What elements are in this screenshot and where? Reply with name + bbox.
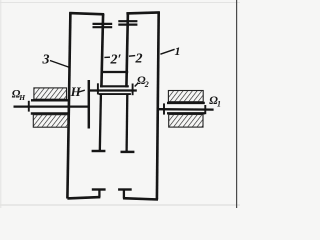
- label O2 leader: [135, 83, 138, 86]
- planet block bottom line L1: [100, 85, 129, 87]
- axle journal tick left: [97, 83, 99, 94]
- svg-text:H: H: [70, 84, 82, 99]
- carrier H arm: [88, 80, 90, 129]
- planet gear 2' body (lower): [100, 94, 101, 152]
- ring gear 3 rim (left drum wall): [67, 12, 70, 198]
- label 2 leader: [129, 55, 135, 58]
- bearing left lower: pad line: [31, 112, 68, 114]
- input shaft omega_H: [14, 105, 89, 107]
- ring gear 3 bottom rim cap: [92, 188, 106, 190]
- ring gear 1 bottom rim cap: [118, 188, 132, 190]
- svg-text:2′: 2′: [110, 53, 122, 68]
- ring gear 3 top web: [69, 13, 104, 14]
- label H leader: [79, 90, 85, 92]
- ring gear 1 bottom tooth stub: [123, 190, 125, 198]
- axle journal tick right: [132, 84, 134, 96]
- bearing right upper: hatch: [168, 91, 203, 102]
- ring gear 1 top web: [126, 12, 159, 13]
- scan border bottom: [0, 204, 240, 206]
- planet lower half top edge: [99, 93, 131, 95]
- scan border top: [0, 2, 240, 4]
- label 3 leader: [50, 61, 70, 68]
- svg-text:3: 3: [42, 53, 50, 68]
- bearing left lower: hatch: [33, 115, 68, 128]
- scan border left: [0, 0, 2, 208]
- bearing right upper: pad line: [167, 102, 205, 104]
- bearing right lower: pad line: [167, 112, 205, 114]
- bearing right lower: hatch: [169, 115, 203, 128]
- page background: [0, 0, 240, 208]
- planet 2 lower rim cap: [121, 151, 135, 153]
- planet axle O2 line: [89, 89, 137, 91]
- planet gear 2 body (upper): [126, 13, 128, 87]
- input shaft end tick: [28, 101, 30, 112]
- label 2' leader: [104, 56, 110, 58]
- planet gear 2 body (lower): [125, 94, 128, 152]
- svg-text:2: 2: [135, 52, 143, 67]
- bearing left upper: pad line: [31, 99, 68, 101]
- bearing left upper: hatch: [34, 88, 67, 99]
- ring gear 1 rim (right drum wall): [157, 12, 159, 200]
- ring gear 3 bottom tooth stub: [98, 190, 100, 197]
- label 1 leader: [160, 49, 174, 54]
- mesh 1/2 bar upper: [118, 20, 137, 22]
- output shaft tick left: [163, 103, 165, 114]
- planet 2' lower rim cap: [92, 150, 106, 152]
- scan border right: [236, 0, 238, 208]
- mesh 3/2' bar lower: [93, 26, 113, 28]
- output shaft omega_1: [158, 108, 214, 111]
- mesh 3/2' bar upper: [93, 23, 113, 25]
- ring gear 1 bottom web: [123, 198, 158, 199]
- svg-text:1: 1: [175, 44, 181, 58]
- mesh 1/2 bar lower: [118, 24, 137, 26]
- ring gear 3 bottom web: [67, 197, 100, 198]
- output shaft tick right: [204, 105, 206, 114]
- planet block sleeve connector: [102, 71, 128, 73]
- planet gear 2' body (upper): [101, 14, 103, 87]
